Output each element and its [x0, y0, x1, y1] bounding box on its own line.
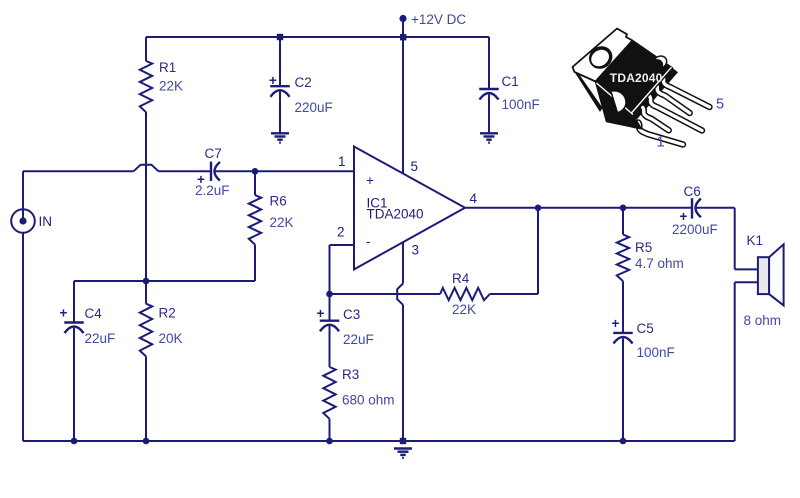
- svg-text:R5: R5: [635, 240, 652, 255]
- ground of C2: [271, 133, 289, 142]
- node output feedback junction: [535, 205, 542, 212]
- node pin1 junction: [252, 168, 259, 175]
- svg-text:22K: 22K: [270, 215, 294, 230]
- capacitor C4: [60, 281, 84, 441]
- tab hole: [585, 42, 617, 74]
- resistor R1: [140, 61, 152, 112]
- node R3 rail junction: [326, 438, 333, 445]
- body hole crescent: [647, 54, 669, 75]
- wire R1 top stub: [145, 37, 147, 61]
- wire feedback horizontal right: [490, 293, 538, 295]
- node R2 rail junction: [143, 438, 150, 445]
- tab white face: [573, 29, 633, 82]
- resistor R4: [440, 288, 490, 300]
- node feedback junction: [326, 291, 333, 298]
- svg-text:IN: IN: [39, 214, 53, 229]
- wire +12V top rail: [146, 36, 489, 38]
- node C5 rail junction: [620, 438, 627, 445]
- ground of C1: [480, 133, 498, 142]
- svg-text:+12V DC: +12V DC: [411, 12, 466, 27]
- svg-text:2.2uF: 2.2uF: [195, 183, 230, 198]
- svg-text:22K: 22K: [452, 302, 476, 317]
- svg-text:4.7 ohm: 4.7 ohm: [635, 256, 684, 271]
- svg-text:3: 3: [412, 243, 420, 258]
- svg-text:4: 4: [470, 191, 478, 206]
- svg-text:+: +: [269, 73, 277, 88]
- svg-text:22uF: 22uF: [343, 332, 374, 347]
- svg-text:TDA2040: TDA2040: [367, 207, 424, 222]
- wire feedback vertical to output: [537, 208, 539, 294]
- svg-text:C6: C6: [684, 184, 701, 199]
- svg-text:1: 1: [338, 154, 346, 169]
- wire pin 3 to ground rail with hop over feedback: [397, 242, 403, 441]
- svg-text:+: +: [317, 306, 325, 321]
- wire speaker bottom terminal return: [735, 282, 758, 441]
- svg-text:TDA2040: TDA2040: [610, 71, 663, 85]
- svg-text:100nF: 100nF: [637, 345, 675, 360]
- svg-text:680 ohm: 680 ohm: [342, 393, 395, 408]
- resistor R3: [323, 367, 335, 419]
- wire output from pin 4: [465, 207, 692, 209]
- body corner detail: [611, 91, 626, 113]
- wire R6 top stub: [254, 171, 256, 195]
- speaker K1: [758, 244, 784, 305]
- svg-text:5: 5: [716, 97, 724, 113]
- resistor R6: [249, 195, 261, 244]
- resistor R5: [617, 235, 629, 282]
- node bias divider junction: [143, 278, 150, 285]
- svg-text:C5: C5: [637, 321, 654, 336]
- wire output down to speaker top terminal: [735, 208, 758, 270]
- svg-text:R3: R3: [342, 367, 359, 382]
- wire C7 to pin 1: [216, 170, 355, 172]
- svg-text:22K: 22K: [159, 79, 183, 94]
- svg-text:R6: R6: [270, 194, 287, 209]
- svg-text:1: 1: [657, 135, 665, 151]
- ground main symbol: [394, 449, 412, 458]
- svg-text:-: -: [366, 234, 371, 249]
- svg-text:K1: K1: [747, 233, 764, 248]
- svg-text:C3: C3: [343, 307, 360, 322]
- wire C6 to speaker corner: [697, 207, 735, 209]
- svg-text:R2: R2: [159, 306, 176, 321]
- wire C1 branch from rail: [488, 37, 490, 89]
- op-amp IC1 triangle: [354, 147, 465, 270]
- body lead-edge shadow: [632, 68, 679, 119]
- wire R5 top stub: [622, 208, 624, 235]
- svg-text:C7: C7: [205, 146, 222, 161]
- wire pin 5 to +12V rail: [402, 37, 404, 173]
- wire R2 bottom to rail: [145, 356, 147, 441]
- wire pin 2 to feedback node: [330, 245, 355, 294]
- wire R3 bottom to rail: [329, 419, 331, 441]
- body highlight lines: [597, 83, 634, 115]
- wire R1 bottom to R2 top: [145, 112, 147, 304]
- capacitor C6: [680, 198, 701, 224]
- svg-text:2: 2: [337, 225, 345, 240]
- node C4 rail junction: [71, 438, 78, 445]
- svg-text:100nF: 100nF: [502, 97, 540, 112]
- svg-text:C2: C2: [295, 75, 312, 90]
- leads: [638, 76, 709, 144]
- wire R6 bottom stub: [254, 245, 256, 281]
- wire bias node horizontal: [74, 280, 255, 282]
- body black: [596, 41, 673, 129]
- wire C2 top stub: [279, 37, 281, 86]
- svg-text:5: 5: [411, 159, 419, 174]
- wire R5 to C5: [622, 281, 624, 333]
- capacitor C2: [269, 73, 290, 133]
- tab side thickness: [572, 68, 603, 113]
- svg-text:R1: R1: [159, 60, 176, 75]
- wire feedback horizontal left: [330, 293, 441, 295]
- svg-text:R4: R4: [452, 271, 470, 286]
- svg-text:C1: C1: [502, 74, 519, 89]
- svg-text:2200uF: 2200uF: [672, 222, 718, 237]
- IC package illustration TDA2040: [572, 29, 724, 151]
- svg-text:8 ohm: 8 ohm: [744, 313, 782, 328]
- svg-text:C4: C4: [85, 306, 103, 321]
- svg-text:22uF: 22uF: [85, 331, 116, 346]
- source IN input terminal: [11, 171, 35, 441]
- svg-text:+: +: [60, 306, 68, 321]
- svg-text:220uF: 220uF: [295, 100, 333, 115]
- wire bottom ground rail: [23, 440, 735, 442]
- svg-text:20K: 20K: [159, 331, 183, 346]
- node C2 rail junction: [277, 34, 283, 40]
- capacitor C7: [197, 162, 220, 187]
- svg-text:+: +: [366, 173, 374, 188]
- node R5 output junction: [620, 205, 627, 212]
- node +12V DC supply terminal: [399, 15, 406, 41]
- node ground rail junction: [400, 438, 406, 444]
- svg-text:+: +: [612, 316, 620, 331]
- capacitor C5: [612, 316, 633, 441]
- capacitor C1: [479, 89, 499, 133]
- resistor R2: [140, 304, 152, 357]
- wire input to C7 with hop over R1-R2 wire: [23, 165, 210, 172]
- capacitor C3: [317, 294, 340, 367]
